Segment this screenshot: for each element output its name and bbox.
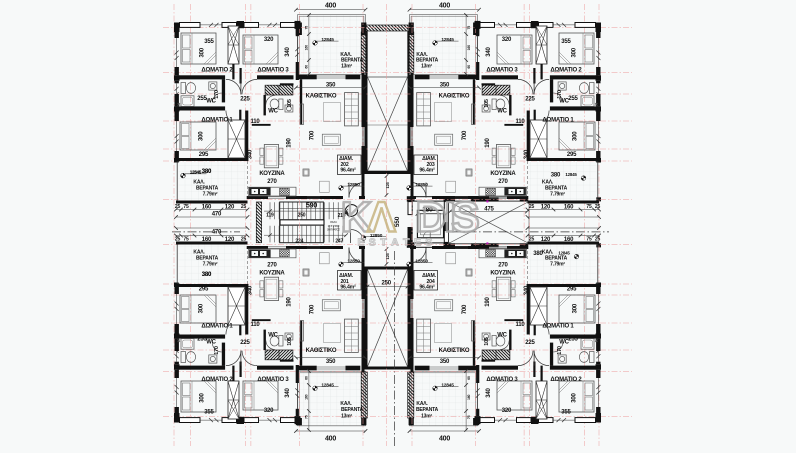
svg-text:160: 160 [564, 237, 574, 243]
svg-text:300: 300 [199, 303, 205, 313]
svg-text:S: S [451, 193, 480, 241]
veranda floor grid TR [410, 15, 478, 75]
watermark KADIS ESTATES [341, 193, 480, 248]
svg-text:225: 225 [240, 96, 250, 102]
veranda rail BL [298, 371, 366, 426]
centerline vertical [394, 251, 396, 446]
svg-text:75: 75 [467, 26, 471, 30]
svg-text:25: 25 [241, 237, 247, 243]
svg-text:700: 700 [462, 304, 468, 314]
svg-text:295: 295 [567, 152, 577, 158]
svg-text:295: 295 [567, 287, 577, 293]
svg-text:12845: 12845 [190, 170, 202, 175]
svg-text:300: 300 [200, 392, 206, 402]
svg-text:170: 170 [557, 346, 563, 355]
elevator dim line [417, 213, 446, 215]
svg-text:700: 700 [309, 130, 315, 140]
svg-text:ΚΑΛ.: ΚΑΛ. [340, 401, 352, 407]
bottom shaft top wall [365, 267, 411, 270]
svg-text:105: 105 [484, 99, 490, 108]
svg-text:110: 110 [515, 322, 525, 328]
svg-text:ΔΩΜΑΤΙΟ 1: ΔΩΜΑΤΙΟ 1 [201, 324, 233, 330]
svg-text:320: 320 [264, 37, 274, 43]
corridor top wall [449, 197, 602, 199]
svg-text:125: 125 [385, 181, 390, 188]
bottom shaft left wall [365, 267, 368, 370]
svg-text:700: 700 [462, 130, 468, 140]
core shaft cross brace [368, 77, 408, 171]
svg-text:25: 25 [241, 204, 247, 210]
svg-text:350: 350 [440, 83, 450, 89]
svg-text:120: 120 [225, 237, 235, 243]
stair direction arrow [344, 205, 358, 219]
svg-text:ΔΩΜΑΤΙΟ 2: ΔΩΜΑΤΙΟ 2 [201, 377, 233, 383]
svg-text:160: 160 [305, 394, 309, 399]
core shaft bottom wall [365, 171, 411, 174]
svg-text:WC: WC [268, 109, 278, 115]
svg-text:255: 255 [568, 96, 578, 102]
svg-text:320: 320 [502, 37, 512, 43]
corridor bottom wall [449, 243, 602, 245]
svg-text:ΚΑΘΙΣΤΙΚΟ: ΚΑΘΙΣΤΙΚΟ [306, 94, 337, 100]
veranda floor grid TL [298, 15, 366, 75]
svg-text:340: 340 [524, 149, 530, 159]
svg-text:105: 105 [287, 99, 293, 108]
svg-text:475: 475 [484, 207, 494, 213]
svg-text:380: 380 [551, 173, 561, 179]
svg-text:75: 75 [183, 237, 189, 243]
core stair and shaft labels [266, 3, 494, 443]
svg-text:ΚΟΥΖΙΝΑ: ΚΟΥΖΙΝΑ [259, 271, 285, 277]
svg-text:224: 224 [295, 238, 303, 244]
svg-text:355: 355 [204, 39, 214, 45]
svg-text:225: 225 [240, 340, 250, 346]
stair flight rail [280, 220, 324, 225]
svg-text:160: 160 [202, 237, 212, 243]
dim line 400 top [296, 9, 366, 11]
corridor cross brace [449, 202, 530, 244]
svg-text:225: 225 [525, 340, 535, 346]
svg-text:ΚΑΘΙΣΤΙΚΟ: ΚΑΘΙΣΤΙΚΟ [439, 94, 470, 100]
svg-text:7.79m²: 7.79m² [550, 261, 565, 267]
bottom shaft cross brace [368, 270, 408, 367]
svg-text:ΔΩΜΑΤΙΟ 1: ΔΩΜΑΤΙΟ 1 [201, 118, 233, 124]
svg-text:300: 300 [572, 392, 578, 402]
svg-text:13m²: 13m² [421, 63, 432, 69]
svg-text:300: 300 [572, 47, 578, 57]
svg-text:170: 170 [214, 90, 220, 99]
svg-text:110: 110 [250, 322, 260, 328]
svg-text:60: 60 [467, 376, 471, 380]
svg-text:7.79m²: 7.79m² [203, 261, 218, 267]
apartment 204 bottom-right unit [408, 226, 601, 432]
svg-text:400: 400 [325, 435, 336, 442]
svg-text:ΔΩΜΑΤΙΟ 2: ΔΩΜΑΤΙΟ 2 [550, 377, 582, 383]
svg-text:ΚΑΘΙΣΤΙΚΟ: ΚΑΘΙΣΤΙΚΟ [439, 348, 470, 354]
svg-text:E: E [414, 237, 421, 249]
svg-text:350: 350 [326, 83, 336, 89]
svg-text:75: 75 [467, 415, 471, 419]
elevator right wall [444, 202, 448, 223]
stair treads [269, 202, 271, 219]
svg-text:WC: WC [206, 339, 216, 345]
survey dot B [245, 241, 247, 243]
svg-text:160: 160 [467, 45, 471, 50]
svg-text:400: 400 [439, 435, 450, 442]
svg-text:7.79m²: 7.79m² [203, 191, 218, 197]
svg-text:ΚΟΥΖΙΝΑ: ΚΟΥΖΙΝΑ [490, 271, 516, 277]
svg-text:350: 350 [326, 359, 336, 365]
svg-text:105: 105 [484, 337, 490, 346]
svg-text:25: 25 [175, 204, 181, 210]
svg-text:ΔΩΜΑΤΙΟ 2: ΔΩΜΑΤΙΟ 2 [201, 68, 233, 74]
svg-text:A: A [391, 237, 399, 249]
svg-text:380: 380 [202, 169, 212, 175]
core shaft left wall [365, 31, 368, 174]
svg-text:WC: WC [268, 333, 278, 339]
svg-text:270: 270 [498, 262, 508, 268]
svg-text:190: 190 [287, 137, 293, 147]
svg-text:320: 320 [502, 408, 512, 414]
veranda floor grid BL [298, 371, 366, 426]
elevator car [417, 210, 443, 238]
svg-text:12845: 12845 [441, 382, 454, 388]
svg-text:ΚΑΘΙΣΤΙΚΟ: ΚΑΘΙΣΤΙΚΟ [306, 348, 337, 354]
svg-text:12845: 12845 [321, 37, 334, 43]
svg-text:ΒΕΡΑΝΤΑ: ΒΕΡΑΝΤΑ [341, 407, 364, 413]
svg-text:13m²: 13m² [341, 413, 352, 419]
svg-text:470: 470 [212, 212, 222, 218]
svg-text:400: 400 [439, 3, 450, 10]
svg-text:380: 380 [533, 251, 543, 257]
survey dot C [486, 200, 488, 202]
svg-text:120: 120 [541, 205, 551, 211]
svg-text:250: 250 [298, 213, 306, 219]
svg-text:96.4m²: 96.4m² [419, 168, 435, 174]
veranda floor grid BR [410, 371, 478, 426]
svg-text:96.4m²: 96.4m² [340, 285, 356, 291]
veranda rail TL [298, 15, 366, 75]
dim line 400 top [410, 9, 480, 11]
dim 125 lower [386, 249, 388, 264]
svg-text:355: 355 [204, 410, 214, 416]
svg-text:700: 700 [309, 304, 315, 314]
svg-text:17.5 ΥΨΟΣ: 17.5 ΥΨΟΣ [328, 224, 340, 228]
veranda rail BR [410, 371, 478, 426]
svg-text:120: 120 [225, 205, 235, 211]
svg-text:S: S [425, 237, 432, 249]
core shaft right wall [408, 31, 411, 174]
dim 250 line [368, 286, 408, 288]
svg-text:T: T [403, 237, 410, 249]
apartment 201 bottom-left unit [174, 226, 367, 432]
svg-text:25: 25 [529, 237, 535, 243]
svg-text:12850: 12850 [347, 258, 360, 264]
svg-text:25: 25 [175, 237, 181, 243]
svg-text:E: E [357, 237, 364, 249]
svg-text:340: 340 [247, 149, 253, 159]
veranda column bottom R-out [473, 418, 479, 425]
veranda column top R-in [409, 23, 414, 36]
svg-text:60: 60 [467, 65, 471, 69]
dim line 400 bottom [296, 430, 366, 432]
svg-text:295: 295 [199, 152, 209, 158]
svg-text:270: 270 [498, 179, 508, 185]
svg-text:190: 190 [485, 296, 491, 306]
labels BR unit [407, 237, 601, 420]
svg-text:12845: 12845 [565, 172, 577, 177]
dim 125 upper [386, 176, 388, 195]
svg-text:300: 300 [199, 131, 205, 141]
svg-text:12845: 12845 [321, 382, 334, 388]
svg-text:12850: 12850 [347, 182, 360, 188]
svg-text:ΔΩΜΑΤΙΟ 3: ΔΩΜΑΤΙΟ 3 [486, 377, 518, 383]
bottom shaft bottom wall [365, 367, 411, 370]
veranda column bottom L-in [361, 418, 366, 425]
stair dim line lower [264, 234, 346, 236]
veranda rail TR [410, 15, 478, 75]
svg-text:250: 250 [381, 281, 391, 287]
veranda column bottom R-in [409, 418, 414, 425]
svg-text:S: S [369, 237, 376, 249]
svg-text:355: 355 [561, 410, 571, 416]
svg-text:160: 160 [305, 45, 309, 50]
svg-text:25: 25 [529, 204, 535, 210]
svg-text:60: 60 [305, 376, 309, 380]
svg-text:340: 340 [524, 285, 530, 295]
svg-text:25: 25 [595, 237, 601, 243]
svg-text:ΔΩΜΑΤΙΟ 2: ΔΩΜΑΤΙΟ 2 [550, 68, 582, 74]
svg-text:590: 590 [306, 203, 317, 210]
svg-text:125: 125 [385, 252, 390, 259]
svg-text:28 ΠΛΑΤΟΣ: 28 ΠΛΑΤΟΣ [327, 227, 340, 231]
centerline horizontal left [172, 231, 240, 233]
dim line 400 bottom [410, 430, 480, 432]
svg-text:WC: WC [497, 333, 507, 339]
svg-text:75: 75 [183, 204, 189, 210]
svg-text:110: 110 [515, 119, 525, 125]
svg-text:WC: WC [559, 339, 569, 345]
apartment 203 top-right unit [408, 13, 601, 219]
svg-text:12850: 12850 [415, 182, 428, 188]
bottom shaft right wall [408, 267, 411, 370]
svg-text:225: 225 [525, 96, 535, 102]
svg-text:75: 75 [305, 415, 309, 419]
veranda column top L-out [296, 23, 302, 36]
veranda column top R-out [473, 23, 479, 36]
svg-text:75: 75 [586, 237, 592, 243]
svg-text:380: 380 [202, 272, 212, 278]
red grid axes [163, 4, 632, 446]
labels TL unit [175, 26, 365, 218]
svg-text:170: 170 [557, 90, 563, 99]
stair dim line upper [264, 210, 346, 212]
svg-text:470: 470 [212, 230, 222, 236]
svg-text:ΚΑΛ.: ΚΑΛ. [416, 401, 428, 407]
veranda column bottom L-out [296, 418, 302, 425]
svg-text:355: 355 [561, 39, 571, 45]
svg-text:160: 160 [467, 394, 471, 399]
svg-text:ΣΚΑΛ: ΣΚΑΛ [330, 220, 337, 224]
svg-text:13m²: 13m² [341, 63, 352, 69]
svg-text:ΚΟΥΖΙΝΑ: ΚΟΥΖΙΝΑ [490, 171, 516, 177]
survey dot D [486, 242, 488, 244]
svg-text:320: 320 [264, 408, 274, 414]
svg-text:160: 160 [202, 205, 212, 211]
centerline horizontal right [452, 231, 609, 233]
svg-text:13m²: 13m² [421, 413, 432, 419]
svg-text:120: 120 [541, 237, 551, 243]
svg-text:295: 295 [199, 287, 209, 293]
svg-text:ΔΩΜΑΤΙΟ 3: ΔΩΜΑΤΙΟ 3 [257, 68, 289, 74]
stair door arc [351, 230, 365, 244]
svg-text:75: 75 [586, 204, 592, 210]
survey dot A [245, 201, 247, 203]
svg-text:340: 340 [247, 285, 253, 295]
svg-text:ΔΩΜΑΤΙΟ 3: ΔΩΜΑΤΙΟ 3 [486, 68, 518, 74]
svg-text:12845: 12845 [558, 251, 570, 256]
svg-text:ΔΩΜΑΤΙΟ 3: ΔΩΜΑΤΙΟ 3 [257, 377, 289, 383]
dim 475 line [450, 211, 527, 213]
core shaft mid line [368, 124, 408, 126]
svg-text:119: 119 [266, 213, 274, 219]
svg-text:ΚΟΥΖΙΝΑ: ΚΟΥΖΙΝΑ [259, 171, 285, 177]
svg-text:ΔΩΜΑΤΙΟ 1: ΔΩΜΑΤΙΟ 1 [542, 324, 574, 330]
labels BL unit [175, 170, 365, 420]
svg-text:96.4m²: 96.4m² [340, 168, 356, 174]
svg-text:12850: 12850 [415, 258, 428, 264]
svg-text:340: 340 [486, 387, 492, 397]
svg-text:D: D [415, 193, 446, 241]
elevator left wall upper [408, 202, 412, 215]
svg-text:60: 60 [305, 65, 309, 69]
svg-text:Λ: Λ [367, 193, 396, 241]
svg-text:T: T [380, 237, 387, 249]
svg-text:340: 340 [285, 46, 291, 56]
svg-text:110: 110 [250, 119, 260, 125]
svg-text:12845: 12845 [441, 37, 454, 43]
svg-text:160: 160 [564, 205, 574, 211]
svg-text:300: 300 [200, 47, 206, 57]
svg-text:25: 25 [595, 204, 601, 210]
flag 12850 stairs [361, 236, 366, 241]
svg-text:340: 340 [486, 46, 492, 56]
elevator bottom wall [414, 243, 444, 247]
elevator top wall [414, 197, 444, 201]
svg-text:75: 75 [305, 26, 309, 30]
svg-text:105: 105 [287, 337, 293, 346]
svg-text:96.4m²: 96.4m² [419, 285, 435, 291]
svg-text:300: 300 [573, 303, 579, 313]
veranda column top L-in [361, 23, 366, 36]
elevator left wall lower [408, 227, 413, 242]
svg-text:170: 170 [214, 346, 220, 355]
svg-text:190: 190 [485, 137, 491, 147]
svg-text:ΒΕΡΑΝΤΑ: ΒΕΡΑΝΤΑ [416, 407, 439, 413]
svg-text:190: 190 [287, 296, 293, 306]
dim 590 line [280, 207, 343, 209]
svg-text:270: 270 [267, 179, 277, 185]
svg-text:255: 255 [568, 337, 578, 343]
svg-text:300: 300 [573, 131, 579, 141]
svg-text:340: 340 [285, 387, 291, 397]
stair well border [280, 202, 324, 243]
svg-text:400: 400 [325, 3, 336, 10]
svg-text:7.79m²: 7.79m² [550, 191, 565, 197]
apartment 202 top-left unit [174, 13, 367, 219]
svg-text:350: 350 [440, 359, 450, 365]
svg-text:270: 270 [267, 262, 277, 268]
svg-text:ΔΩΜΑΤΙΟ 1: ΔΩΜΑΤΙΟ 1 [542, 118, 574, 124]
svg-text:WC: WC [497, 109, 507, 115]
labels TR unit [407, 26, 601, 211]
